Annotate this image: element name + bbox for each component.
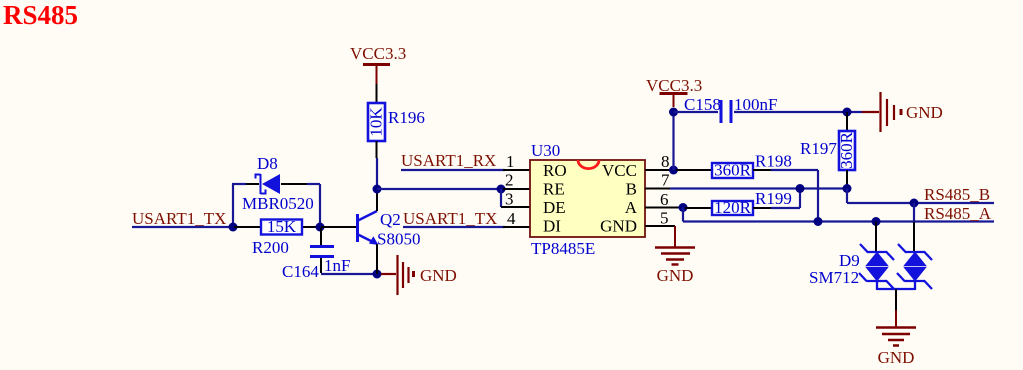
resistor R198 body 360R: [712, 163, 753, 178]
svg-text:DE: DE: [543, 198, 566, 217]
svg-text:360R: 360R: [714, 161, 752, 180]
resistor R200 pin left: [234, 226, 261, 228]
pin 2 stub: [503, 188, 530, 190]
resistor R199 body 120R: [712, 201, 753, 215]
resistor R199 pin right: [753, 207, 771, 209]
svg-text:USART1_TX: USART1_TX: [132, 209, 226, 228]
junction M TVS left tap: [872, 217, 881, 226]
svg-text:1nF: 1nF: [324, 256, 350, 275]
svg-text:D8: D8: [257, 154, 278, 173]
wire collector node to pin2: [377, 188, 501, 190]
junction J R197 bottom: [843, 184, 852, 193]
svg-text:R199: R199: [755, 189, 792, 208]
wire pin5 to ground: [674, 226, 676, 247]
transistor Q2 base pin: [321, 226, 356, 228]
svg-text:SM712: SM712: [809, 268, 859, 287]
svg-text:GND: GND: [420, 266, 457, 285]
transistor Q2 emitter lead: [376, 244, 378, 274]
svg-text:TP8485E: TP8485E: [531, 239, 595, 258]
pin 8 stub: [645, 169, 674, 171]
pin 6 stub: [645, 207, 683, 209]
wire pin6 down to A row: [682, 208, 684, 222]
junction E pin2 node: [497, 185, 506, 194]
wire TVS common rail: [877, 288, 915, 290]
diode D9 left branch: [859, 244, 894, 290]
pin 4 stub: [503, 226, 530, 228]
wire B jog down: [846, 189, 848, 204]
junction G pin6: [679, 203, 688, 212]
wire VCC to C158: [674, 111, 719, 113]
wire R198 to A row: [771, 169, 818, 171]
svg-text:R198: R198: [755, 152, 792, 171]
pin 3 stub: [501, 206, 530, 208]
svg-text:R200: R200: [252, 238, 289, 257]
ground GND3 sideways: [862, 92, 901, 132]
wire D8 loop left vertical: [232, 184, 234, 227]
ground GND4 earth below TVS: [876, 328, 916, 346]
diode D8 MBR0520 schottky: [256, 174, 281, 194]
resistor R196 pin bottom: [376, 141, 378, 158]
resistor R200 body 15K: [261, 220, 302, 235]
wire B to RS485_B: [847, 202, 994, 204]
svg-text:R197: R197: [800, 139, 837, 158]
svg-text:C164: C164: [282, 262, 319, 281]
svg-text:MBR0520: MBR0520: [242, 194, 314, 213]
wire USART1_TX to junction A: [132, 226, 233, 228]
svg-text:USART1_RX: USART1_RX: [401, 151, 496, 170]
wire pin2 to pin3: [500, 189, 502, 207]
wire C158 to GND node: [734, 111, 862, 113]
junction B: [316, 223, 325, 232]
svg-text:6: 6: [660, 190, 669, 209]
junction A: [229, 223, 238, 232]
svg-text:5: 5: [660, 209, 669, 228]
diode D9 right branch: [897, 244, 932, 290]
svg-text:USART1_TX: USART1_TX: [403, 209, 497, 228]
transistor Q2 S8050: [358, 211, 379, 245]
wire TVS to ground: [895, 289, 897, 310]
wire D8 loop top left: [232, 183, 246, 185]
wire pin7 B line: [670, 187, 847, 189]
diode D8 pin left: [246, 183, 259, 185]
svg-text:U30: U30: [531, 141, 560, 160]
resistor R198 pin right: [753, 169, 771, 171]
svg-text:DI: DI: [543, 217, 561, 236]
svg-text:RE: RE: [543, 180, 565, 199]
ground GND2 earth below chip: [655, 248, 695, 265]
svg-text:RS485_B: RS485_B: [924, 185, 990, 204]
resistor R197 pin bottom: [846, 170, 848, 189]
svg-text:R196: R196: [388, 108, 425, 127]
pin 5 stub: [645, 225, 675, 227]
svg-text:RO: RO: [543, 161, 567, 180]
svg-text:15K: 15K: [267, 217, 297, 236]
svg-text:10K: 10K: [367, 107, 386, 137]
op-amp U30 TP8485E body: [530, 160, 645, 237]
resistor R196 pin top: [376, 84, 378, 103]
svg-text:A: A: [625, 198, 638, 217]
resistor R197 body 360R: [839, 131, 855, 170]
wire A row: [683, 220, 994, 222]
capacitor C164 lead top: [320, 228, 322, 245]
svg-text:RS485: RS485: [3, 0, 78, 30]
pin 1 stub: [503, 169, 530, 171]
resistor R198 pin left: [676, 169, 712, 171]
wire C164 to emitter node: [321, 273, 377, 275]
TVS D9 right lead: [913, 203, 915, 222]
resistor R196 body 10K: [368, 103, 385, 141]
svg-text:B: B: [626, 180, 637, 199]
svg-text:S8050: S8050: [377, 230, 420, 249]
svg-text:8: 8: [661, 152, 670, 171]
chip notch arc: [578, 160, 599, 169]
svg-text:GND: GND: [600, 217, 637, 236]
diode D8 pin right: [281, 183, 307, 185]
svg-text:Q2: Q2: [380, 210, 401, 229]
svg-text:RS485_A: RS485_A: [924, 204, 992, 223]
svg-text:VCC3.3: VCC3.3: [350, 44, 406, 63]
wire R196 to collector node: [376, 158, 378, 189]
svg-text:1: 1: [506, 152, 515, 171]
svg-text:120R: 120R: [714, 198, 752, 217]
wire D8 loop top right: [307, 183, 320, 185]
resistor R200 pin right: [302, 226, 320, 228]
wire R199 up to B row: [771, 207, 800, 209]
svg-text:3: 3: [505, 190, 514, 209]
resistor R199 pin left: [685, 207, 712, 209]
wire VCC to pin8: [672, 112, 674, 170]
junction F pin8: [669, 166, 678, 175]
wire USART1_RX: [401, 169, 505, 171]
svg-text:4: 4: [507, 209, 516, 228]
junction C emitter node: [373, 270, 382, 279]
wire D8 loop right vertical: [319, 184, 321, 227]
ground GND1 sideways: [381, 255, 414, 295]
capacitor C164 lead bottom: [320, 258, 322, 273]
svg-text:GND: GND: [878, 348, 915, 367]
wire USART1_TX pin4: [403, 226, 505, 228]
transistor Q2 collector lead: [376, 189, 378, 211]
junction L R198 tap: [814, 217, 823, 226]
junction H VCC node: [669, 108, 678, 117]
svg-text:2: 2: [505, 171, 514, 190]
svg-text:360R: 360R: [837, 131, 856, 169]
junction D collector node: [373, 185, 382, 194]
svg-text:VCC: VCC: [602, 161, 637, 180]
pin 7 stub: [645, 188, 672, 190]
TVS D9 left lead: [875, 222, 877, 253]
capacitor C158 plates: [720, 100, 723, 123]
capacitor C164 plates: [310, 245, 334, 248]
junction K R199 top: [796, 184, 805, 193]
svg-text:GND: GND: [906, 103, 943, 122]
svg-text:7: 7: [661, 171, 670, 190]
resistor R197 pin top: [846, 112, 848, 131]
junction I: [843, 108, 852, 117]
svg-text:GND: GND: [657, 266, 694, 285]
junction N TVS right tap: [910, 199, 919, 208]
svg-text:C158: C158: [684, 95, 721, 114]
